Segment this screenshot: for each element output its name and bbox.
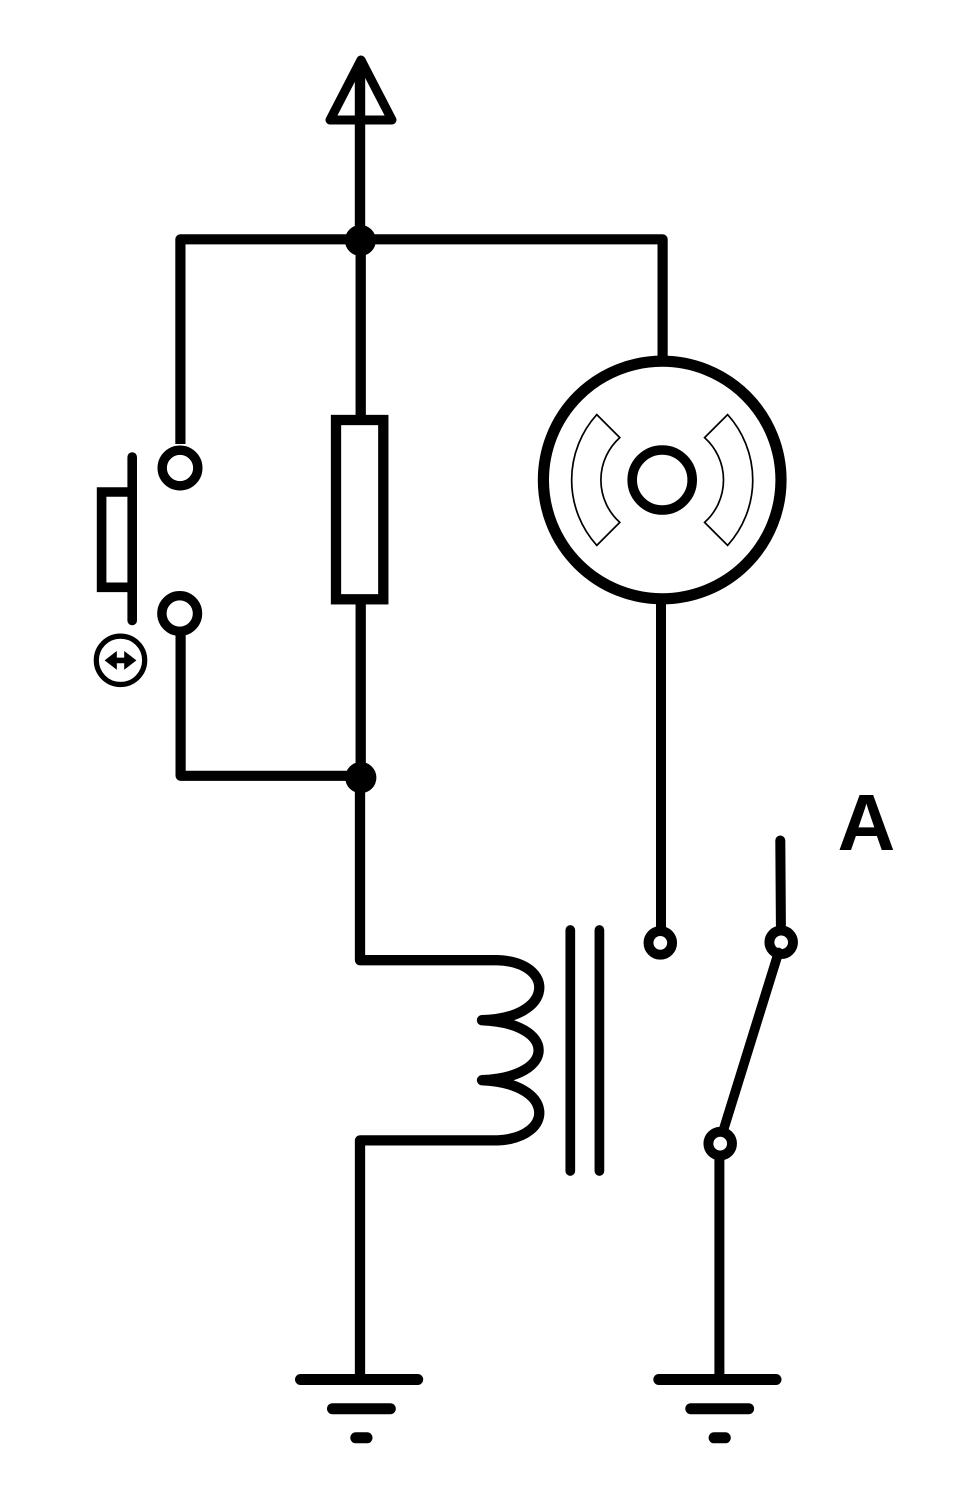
ground right xyxy=(659,1380,776,1438)
motor M1 outer circle xyxy=(543,361,781,599)
pushbutton S1 plunger xyxy=(127,457,137,621)
motor M1 left brush arc xyxy=(572,415,620,546)
node junction top xyxy=(345,225,376,256)
relay contact fixed (motor side) xyxy=(649,931,673,955)
relay contact fixed (A side) xyxy=(769,931,793,955)
relay contact moving (common) xyxy=(708,1132,732,1156)
relay switch blade xyxy=(723,953,779,1134)
pushbutton S1 button cap xyxy=(102,492,137,587)
pushbutton S1 top terminal xyxy=(162,450,198,486)
wire top horizontal bus xyxy=(180,239,662,444)
node junction bottom xyxy=(345,762,376,793)
motor M1 right brush arc xyxy=(705,415,753,546)
wire resistor bottom lead xyxy=(356,602,366,777)
svg-text:A: A xyxy=(838,778,896,867)
wire switch A stub xyxy=(775,841,786,926)
relay core line 1 xyxy=(565,930,575,1171)
wire common contact to ground xyxy=(714,1155,724,1377)
supply arrow V+ xyxy=(330,60,392,242)
wire resistor top lead xyxy=(356,241,366,418)
wire pushbutton lower to junction xyxy=(181,620,360,776)
motor M1 hub xyxy=(632,450,692,510)
actuation symbol circle (toggle) xyxy=(96,636,144,684)
wire motor bottom lead xyxy=(656,600,666,940)
relay coil K1 with leads xyxy=(360,776,539,1377)
ground left xyxy=(301,1380,418,1438)
pushbutton S1 bottom terminal xyxy=(162,596,198,632)
resistor R1 xyxy=(336,420,383,599)
actuation symbol double arrow xyxy=(105,651,137,670)
relay core line 2 xyxy=(595,930,605,1171)
